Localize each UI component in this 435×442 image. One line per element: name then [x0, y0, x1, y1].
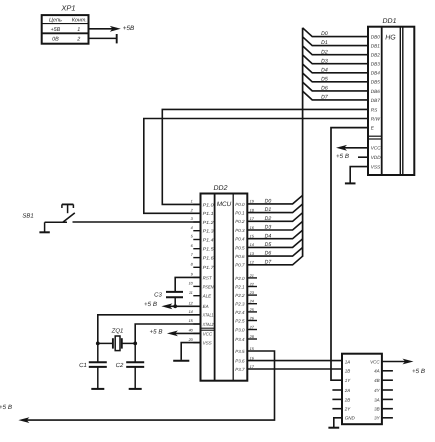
svg-text:1B: 1B [345, 369, 351, 374]
svg-text:RST: RST [203, 275, 213, 280]
net label D0 at DD2 [265, 199, 272, 205]
svg-text:0В: 0В [52, 37, 59, 43]
svg-text:VCC: VCC [371, 146, 382, 151]
ground C1 [91, 367, 104, 389]
wire DD2 P0.5 (D5) to bus, pin 14 [247, 239, 302, 248]
pin 25 stub DD2 P2.4 [247, 308, 257, 312]
pin 4 stub DD2 P1.3 [191, 226, 201, 231]
net label D3 at DD2 [265, 225, 272, 231]
svg-text:P0.2: P0.2 [235, 219, 245, 224]
svg-text:VSS: VSS [203, 341, 212, 346]
svg-text:D0: D0 [265, 199, 272, 205]
svg-text:20: 20 [188, 338, 194, 342]
svg-text:DB0: DB0 [371, 35, 381, 40]
svg-text:D2: D2 [265, 216, 272, 222]
svg-text:VCC: VCC [370, 359, 380, 364]
capacitor C1 [79, 343, 107, 369]
pin 3 stub DD2 P1.2 [191, 217, 201, 222]
pin 8 stub DD2 P1.7 [191, 263, 201, 268]
svg-text:+5В: +5В [51, 27, 61, 33]
svg-text:PSEN: PSEN [203, 284, 215, 289]
wire D3 to DD1 DB3 [303, 55, 368, 64]
stub gate 3Y [382, 417, 393, 419]
stub gate 3B [382, 408, 393, 410]
wire DD1 R/W to DD2 P1.1 [144, 119, 368, 214]
wire 0V from XP1 pin 2 [89, 34, 117, 43]
svg-text:D3: D3 [321, 58, 328, 64]
net label +5 В at DD1 VCC [336, 153, 349, 160]
svg-text:DB7: DB7 [371, 98, 381, 103]
svg-text:23: 23 [249, 291, 255, 295]
logic gate IC [342, 354, 382, 425]
pin 7 stub DD2 P1.6 [191, 253, 201, 258]
pin 40 stub DD2 VCC [189, 329, 201, 334]
svg-text:22: 22 [249, 283, 255, 287]
crystal ZQ1 [98, 328, 135, 351]
svg-text:26: 26 [249, 317, 255, 321]
svg-text:2A: 2A [344, 388, 351, 393]
svg-text:1: 1 [191, 200, 193, 204]
svg-text:1: 1 [77, 27, 80, 33]
pin 23 stub DD2 P2.2 [247, 291, 257, 295]
svg-text:P1.6: P1.6 [203, 256, 215, 261]
wire DD2 P3.6 to gate 1A, pin 16 [247, 357, 342, 361]
svg-text:RS: RS [371, 107, 378, 112]
capacitor C3 [154, 291, 183, 306]
svg-text:11: 11 [189, 291, 193, 295]
svg-text:1Y: 1Y [345, 378, 352, 383]
svg-text:C2: C2 [116, 362, 124, 369]
svg-text:P0.7: P0.7 [235, 263, 245, 268]
svg-text:P2.0: P2.0 [235, 276, 245, 281]
stub gate 2B [332, 398, 342, 400]
svg-text:P3.4: P3.4 [235, 337, 245, 342]
pin 15 stub DD2 XTAL2 [189, 319, 201, 324]
svg-text:DD2: DD2 [213, 185, 227, 192]
svg-text:DB1: DB1 [371, 44, 381, 49]
svg-text:D4: D4 [265, 233, 272, 239]
pin 14 stub DD2 XTAL1 [189, 310, 201, 315]
svg-text:28: 28 [249, 335, 255, 339]
connector XP1 [42, 4, 89, 44]
svg-text:P3.6: P3.6 [235, 359, 245, 364]
net label D7 at DD1 [321, 95, 329, 101]
svg-text:D3: D3 [265, 225, 272, 231]
svg-text:P0.3: P0.3 [235, 228, 245, 233]
svg-text:D6: D6 [321, 86, 328, 92]
pin 12 stub DD2 EA [189, 302, 201, 307]
svg-text:D6: D6 [265, 251, 272, 257]
wire SB1 to DD2 P1.2 [73, 221, 201, 223]
net label +5В [123, 25, 135, 32]
pin 20 stub DD2 VSS [188, 338, 201, 343]
arrow bottom rail +5 В [0, 404, 29, 423]
svg-text:VCC: VCC [203, 331, 213, 336]
pin 11 stub DD2 ALE [189, 291, 201, 296]
svg-text:P1.0: P1.0 [203, 202, 215, 207]
svg-text:EA: EA [203, 304, 209, 309]
stub gate 2A [332, 389, 342, 391]
svg-text:2: 2 [76, 37, 80, 43]
pin 2 stub DD2 P1.1 [190, 209, 201, 214]
svg-text:P1.7: P1.7 [203, 265, 215, 270]
wire D4 to DD1 DB4 [303, 64, 368, 73]
ground C2 [129, 367, 142, 389]
svg-text:P1.2: P1.2 [203, 220, 215, 225]
svg-text:P3.7: P3.7 [235, 367, 245, 372]
svg-text:XTAL2: XTAL2 [202, 322, 214, 327]
svg-text:4: 4 [191, 226, 193, 230]
svg-text:D4: D4 [321, 67, 328, 73]
svg-text:C1: C1 [79, 362, 87, 369]
svg-text:VDD: VDD [371, 155, 382, 160]
svg-text:DB2: DB2 [371, 53, 381, 58]
svg-text:C3: C3 [154, 291, 162, 298]
wire D1 to DD1 DB1 [303, 37, 368, 46]
wire DD2 P0.3 (D3) to bus, pin 16 [247, 221, 302, 230]
svg-text:D0: D0 [321, 31, 328, 37]
net label +5 В at gate VCC [412, 368, 425, 375]
power +5V arrow to DD2 VCC [167, 331, 201, 337]
svg-text:4B: 4B [374, 378, 380, 383]
svg-text:2B: 2B [344, 397, 351, 402]
svg-text:4A: 4A [374, 369, 380, 374]
junction XTAL1 node [96, 342, 100, 346]
stub gate 4Y [382, 389, 393, 391]
svg-text:D1: D1 [321, 40, 328, 46]
net label D6 at DD2 [265, 251, 272, 257]
svg-text:HG: HG [385, 35, 396, 42]
svg-text:14: 14 [250, 243, 254, 247]
svg-text:P3.0: P3.0 [235, 327, 245, 332]
svg-text:25: 25 [249, 308, 255, 312]
svg-text:Цепь: Цепь [49, 18, 62, 24]
ground DD2 VSS [173, 343, 200, 361]
svg-text:D7: D7 [265, 259, 273, 265]
svg-text:P1.5: P1.5 [203, 247, 215, 252]
net label D1 at DD1 [321, 40, 328, 46]
svg-text:P2.5: P2.5 [235, 318, 245, 323]
wire DD1 E to gate 1Y [331, 128, 368, 381]
wire DD2 P0.1 (D1) to bus, pin 18 [247, 204, 302, 213]
svg-text:P0.1: P0.1 [235, 211, 245, 216]
pin 1 stub DD2 P1.0 [191, 200, 201, 205]
wire DD2 P0.0 (D0) to bus, pin 19 [247, 195, 302, 204]
IC DD2 MCU [201, 185, 248, 381]
pin 5 stub DD2 P1.4 [191, 235, 201, 240]
svg-text:D2: D2 [321, 49, 328, 55]
power +5V arrow from gate VCC [382, 359, 414, 365]
net label D5 at DD2 [265, 242, 272, 248]
svg-text:P1.4: P1.4 [203, 237, 215, 242]
svg-text:14: 14 [189, 310, 193, 314]
wire DD2 P0.4 (D4) to bus, pin 15 [247, 230, 302, 239]
pin 9 stub DD2 RST [191, 273, 201, 278]
svg-text:ZQ1: ZQ1 [111, 328, 124, 335]
net label D1 at DD2 [265, 207, 272, 213]
wire DD2 P0.2 (D2) to bus, pin 17 [247, 213, 302, 222]
svg-text:DD1: DD1 [382, 18, 396, 25]
ground DD1 VSS [345, 167, 368, 184]
net label D5 at DD1 [321, 76, 328, 82]
svg-text:P2.4: P2.4 [235, 310, 245, 315]
wire D7 to DD1 DB7 [303, 91, 368, 100]
wire DD2 P0.7 (D7) to bus, pin 12 [247, 256, 302, 265]
wire D0 to DD1 DB0 [303, 28, 368, 37]
junction XTAL2 node [133, 342, 137, 346]
svg-text:ALE: ALE [202, 294, 213, 299]
net label D4 at DD1 [321, 67, 328, 73]
stub gate 3A [382, 398, 393, 400]
wire DD2 XTAL1 to crystal [98, 315, 201, 344]
svg-text:24: 24 [249, 300, 254, 304]
wire DD1 RS to DD2 P1.0 [162, 109, 368, 204]
power +5V arrow to DD2 EA [161, 303, 200, 309]
svg-text:P0.0: P0.0 [235, 202, 245, 207]
data bus vertical [302, 28, 304, 257]
svg-text:1A: 1A [345, 359, 351, 364]
svg-text:2Y: 2Y [344, 407, 352, 412]
svg-text:R/W: R/W [371, 116, 381, 121]
wire D2 to DD1 DB2 [303, 46, 368, 55]
svg-text:21: 21 [249, 274, 254, 278]
IC DD1 indicator [368, 18, 414, 175]
svg-text:P2.3: P2.3 [235, 302, 245, 307]
net label D4 at DD2 [265, 233, 272, 239]
svg-text:27: 27 [249, 326, 255, 330]
svg-text:DB4: DB4 [371, 71, 381, 76]
pin 22 stub DD2 P2.1 [247, 283, 257, 287]
pin 27 stub DD2 P3.0 [247, 326, 257, 330]
stub gate 4B [382, 379, 393, 381]
wire DD2 RST to C3 [175, 277, 200, 291]
wire +5V from XP1 pin 1 [89, 26, 121, 32]
wire D6 to DD1 DB6 [303, 82, 368, 91]
wire DD2 P3.5 to bottom rail, pin 15 [26, 347, 275, 420]
svg-text:DB6: DB6 [371, 89, 381, 94]
push button SB1 [22, 204, 74, 222]
wire DD2 XTAL2 to crystal [135, 324, 200, 343]
net label +5 В at DD2 VCC [150, 328, 163, 335]
svg-text:P0.5: P0.5 [235, 245, 245, 250]
net label D7 at DD2 [265, 259, 273, 265]
pin 26 stub DD2 P2.5 [247, 317, 257, 321]
svg-text:MCU: MCU [217, 201, 232, 208]
svg-text:+5 В: +5 В [412, 368, 425, 375]
svg-text:P1.3: P1.3 [203, 229, 215, 234]
wire DD2 P3.7 to gate 1B, pin 17 [247, 365, 342, 369]
wire DD2 P0.6 (D6) to bus, pin 13 [247, 248, 302, 257]
svg-text:3B: 3B [374, 407, 380, 412]
svg-text:P0.6: P0.6 [235, 254, 245, 259]
stub gate 4A [382, 370, 393, 372]
pin 21 stub DD2 P2.0 [247, 274, 257, 278]
svg-text:+5 В: +5 В [144, 301, 157, 308]
svg-text:D5: D5 [321, 76, 328, 82]
wire D5 to DD1 DB5 [303, 73, 368, 82]
net label D3 at DD1 [321, 58, 328, 64]
svg-text:+5В: +5В [123, 25, 135, 32]
svg-text:P0.4: P0.4 [235, 237, 245, 242]
stub gate 2Y [332, 408, 342, 410]
svg-text:SB1: SB1 [22, 213, 33, 220]
svg-text:Конт.: Конт. [72, 18, 87, 24]
svg-text:D7: D7 [321, 95, 329, 101]
junction C3 / EA [173, 304, 177, 308]
svg-text:DB5: DB5 [371, 80, 381, 85]
pin 6 stub DD2 P1.5 [191, 244, 201, 249]
capacitor C2 [116, 343, 145, 369]
svg-text:3A: 3A [374, 397, 380, 402]
ground gate GND [328, 418, 342, 428]
svg-text:+5 В: +5 В [336, 153, 349, 160]
stub DD1 VDD [358, 156, 368, 158]
svg-text:P2.2: P2.2 [235, 293, 245, 298]
pin 24 stub DD2 P2.3 [247, 300, 257, 304]
svg-text:P2.1: P2.1 [235, 284, 245, 289]
svg-text:DB3: DB3 [371, 62, 381, 67]
net label D2 at DD2 [265, 216, 272, 222]
power +5V arrow to DD1 VCC [336, 145, 368, 151]
svg-text:P1.1: P1.1 [203, 211, 215, 216]
svg-text:XP1: XP1 [60, 4, 75, 13]
svg-text:+5 В: +5 В [150, 328, 163, 335]
svg-text:+5 В: +5 В [0, 404, 12, 411]
svg-text:GND: GND [345, 416, 356, 421]
svg-text:P3.5: P3.5 [235, 349, 245, 354]
pin 28 stub DD2 P3.4 [247, 335, 257, 339]
svg-text:D5: D5 [265, 242, 272, 248]
svg-text:VSS: VSS [371, 165, 381, 170]
ground SB1 [39, 222, 49, 232]
net label +5 В at EA [144, 301, 157, 308]
svg-text:XTAL1: XTAL1 [202, 313, 214, 318]
pin 10 stub DD2 PSEN [189, 282, 201, 287]
net label D0 at DD1 [321, 31, 328, 37]
net label D6 at DD1 [321, 86, 328, 92]
net label D2 at DD1 [321, 49, 328, 55]
svg-text:D1: D1 [265, 207, 272, 213]
